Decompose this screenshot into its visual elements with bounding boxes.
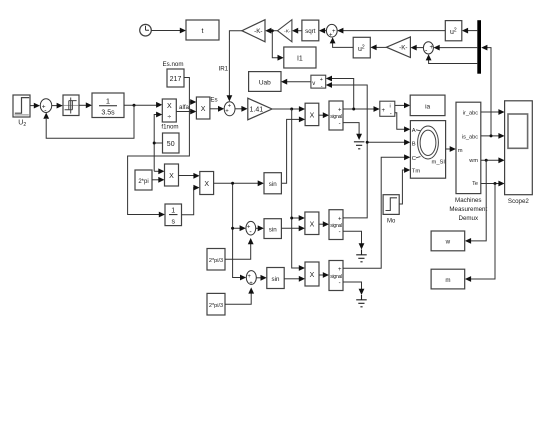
svg-text:Scope2: Scope2 bbox=[508, 198, 530, 205]
wire X3 to source3 bbox=[319, 272, 329, 278]
svg-text:1.41: 1.41 bbox=[250, 107, 264, 114]
svg-text:X: X bbox=[310, 221, 315, 228]
node f1nom junction bbox=[153, 142, 156, 145]
node Te junction bbox=[494, 182, 497, 185]
relay block bbox=[63, 95, 79, 116]
wire sumR to gain K3 bbox=[411, 45, 424, 51]
svg-text:v: v bbox=[312, 81, 315, 87]
display block Uab bbox=[249, 72, 281, 92]
sum junction R bbox=[423, 42, 433, 55]
wire sqrt to gain K2 bbox=[292, 28, 302, 34]
label Es.nom bbox=[163, 61, 184, 68]
wire 50 to divider and to product Xa bbox=[154, 112, 164, 175]
gain 1.41 bbox=[248, 98, 272, 120]
svg-text:50: 50 bbox=[167, 141, 175, 148]
display block I1 bbox=[284, 47, 316, 68]
svg-text:m: m bbox=[458, 148, 463, 154]
wire phase A tap to voltmeter plus bbox=[326, 76, 354, 109]
wire sin1 up to X1 lower input bbox=[281, 117, 305, 184]
svg-text:is_abc: is_abc bbox=[462, 134, 478, 140]
wire Te to scope bbox=[481, 181, 505, 187]
svg-text:t: t bbox=[202, 28, 204, 35]
constant 50 bbox=[163, 133, 180, 153]
sum junction top bbox=[326, 24, 337, 38]
wire u2b to sumTop bottom bbox=[330, 37, 354, 47]
svg-text:Es: Es bbox=[210, 97, 217, 104]
svg-text:-K-: -K- bbox=[284, 29, 291, 35]
product X2mid bbox=[305, 212, 319, 235]
integrator 1/s bbox=[165, 204, 182, 226]
svg-text:ia: ia bbox=[425, 103, 430, 110]
wire wm down to w block bbox=[465, 160, 486, 243]
wire Te down to m block bbox=[465, 184, 495, 282]
wire source2 minus to ground2 bbox=[343, 231, 364, 249]
step source U2 bbox=[13, 95, 30, 128]
ground 2 bbox=[356, 250, 367, 262]
svg-text:s: s bbox=[171, 218, 175, 225]
svg-text:3.5s: 3.5s bbox=[101, 110, 115, 117]
wire phase B tap to voltmeter minus bbox=[326, 82, 367, 142]
svg-text:Te: Te bbox=[472, 181, 478, 187]
wire source1 plus to ammeter bbox=[343, 106, 380, 112]
controlled voltage source 2 bbox=[329, 210, 343, 240]
svg-text:+: + bbox=[225, 109, 229, 115]
svg-text:alfa: alfa bbox=[179, 104, 190, 111]
wire transfer fcn output to divider bbox=[124, 102, 162, 108]
node phase junction 2 bbox=[231, 227, 234, 230]
node feedback junction bbox=[133, 104, 136, 107]
wire integrator to X2 lower bbox=[182, 185, 200, 215]
wire amplitude line down to X2mid and X3 bbox=[292, 109, 305, 271]
node is_abc junction bbox=[490, 134, 493, 137]
wire bar third output to sumR bottom bbox=[426, 54, 478, 63]
wire ammeter conductor to machine A bbox=[395, 113, 411, 133]
wire machine m output to demux bbox=[446, 146, 456, 152]
wire product X to sum Es bbox=[210, 106, 224, 112]
scope Scope2 bbox=[505, 101, 533, 205]
svg-text:-: - bbox=[339, 121, 341, 127]
label Machines Measurement Demux bbox=[449, 197, 487, 222]
wire sum3 to sin3 bbox=[256, 275, 266, 281]
wire wm to scope bbox=[481, 157, 505, 163]
wire relay to transfer fcn bbox=[79, 102, 92, 108]
svg-text:+: + bbox=[247, 274, 251, 280]
svg-text:÷: ÷ bbox=[167, 114, 171, 121]
clock block bbox=[140, 24, 152, 36]
svg-text:+: + bbox=[382, 108, 386, 114]
wire sum1 to relay bbox=[52, 103, 63, 109]
node B tap junction bbox=[366, 141, 369, 144]
wire u2a to sumTop bbox=[337, 28, 445, 34]
svg-text:+: + bbox=[249, 281, 253, 287]
svg-text:+: + bbox=[430, 45, 434, 51]
svg-text:+: + bbox=[338, 107, 342, 113]
sum junction Es bbox=[224, 102, 235, 116]
svg-text:Measurement: Measurement bbox=[449, 206, 487, 213]
svg-text:-: - bbox=[339, 230, 341, 236]
wire ammeter measurement to ia bbox=[395, 103, 410, 109]
svg-text:X: X bbox=[169, 173, 174, 180]
svg-text:X: X bbox=[310, 272, 315, 279]
svg-text:-K-: -K- bbox=[399, 45, 407, 52]
svg-text:Es.nom: Es.nom bbox=[163, 61, 184, 68]
node amplitude junction 1 bbox=[290, 108, 293, 111]
math sqrt bbox=[302, 20, 319, 41]
svg-text:+: + bbox=[320, 77, 323, 83]
svg-text:Tm: Tm bbox=[412, 169, 421, 175]
wire sum2 to sin2 bbox=[256, 225, 264, 231]
svg-text:-K-: -K- bbox=[254, 28, 262, 35]
wire feedback loop to sum1 bbox=[43, 105, 134, 138]
display block t bbox=[186, 20, 219, 40]
wire IR1 gain to sumEs bbox=[227, 31, 242, 102]
svg-text:signal: signal bbox=[330, 223, 342, 229]
wire X1 to source1 bbox=[319, 112, 329, 118]
svg-text:sin: sin bbox=[269, 226, 277, 233]
product X Es bbox=[196, 97, 210, 119]
label IR1 bbox=[218, 66, 228, 73]
divider block X / bbox=[162, 99, 176, 122]
wire Xa to X2 bbox=[179, 173, 200, 179]
wire source3 plus up to machine C bbox=[343, 154, 410, 268]
trig sin3 bbox=[267, 268, 284, 289]
current measurement ammeter bbox=[380, 101, 395, 117]
svg-text:IR1: IR1 bbox=[218, 66, 228, 73]
display block ia bbox=[410, 95, 445, 116]
wire U2 to sum1 bbox=[30, 103, 40, 109]
wire bar to u2a bbox=[462, 28, 477, 34]
svg-text:1: 1 bbox=[171, 208, 175, 215]
node wm junction bbox=[485, 159, 488, 162]
svg-text:+: + bbox=[338, 216, 342, 222]
wire source1 minus to ground1 bbox=[343, 123, 362, 140]
step source Mo bbox=[383, 195, 399, 225]
svg-text:1: 1 bbox=[106, 97, 110, 106]
svg-text:-: - bbox=[321, 84, 323, 90]
svg-text:Machines: Machines bbox=[455, 197, 481, 204]
svg-text:+: + bbox=[332, 29, 336, 35]
svg-text:217: 217 bbox=[170, 76, 182, 83]
svg-text:I1: I1 bbox=[297, 56, 303, 63]
constant 217 bbox=[167, 69, 184, 87]
svg-text:C: C bbox=[412, 156, 416, 162]
svg-text:X: X bbox=[204, 181, 209, 188]
product X1 bbox=[305, 103, 319, 125]
wire 217 to product X and to integrator bbox=[128, 78, 197, 218]
node phase junction 1 bbox=[231, 182, 234, 185]
machines measurement demux bbox=[456, 102, 481, 193]
svg-text:X: X bbox=[310, 112, 315, 119]
svg-text:2*pi: 2*pi bbox=[138, 179, 148, 185]
wire 2*pi to product Xa bbox=[152, 177, 165, 183]
node amplitude junction 2 bbox=[290, 217, 293, 220]
wire source2 plus up to machine B bbox=[343, 139, 410, 217]
constant 2*pi/3 b bbox=[207, 293, 225, 315]
svg-text:sqrt: sqrt bbox=[305, 28, 316, 35]
wire gainK3 to u2b bbox=[370, 45, 386, 51]
wire X2mid to source2 bbox=[319, 221, 329, 227]
product X2 bbox=[200, 172, 214, 195]
wire sumEs to gain 1.41 bbox=[235, 106, 248, 112]
wire bar to sumR bbox=[434, 45, 478, 51]
wire voltmeter to Uab bbox=[281, 79, 311, 85]
trig sin2 bbox=[264, 219, 281, 239]
controlled voltage source 3 bbox=[329, 261, 343, 291]
transfer fcn 1/3.5s bbox=[92, 93, 124, 118]
wire sumTop to sqrt bbox=[319, 28, 327, 34]
svg-text:Uab: Uab bbox=[259, 79, 271, 86]
svg-text:-: - bbox=[390, 111, 392, 117]
svg-text:X: X bbox=[201, 106, 206, 113]
svg-text:sin: sin bbox=[269, 181, 277, 188]
display block w bbox=[431, 231, 465, 251]
wire clock to t bbox=[151, 28, 186, 34]
label alfa bbox=[179, 104, 190, 111]
product Xa bbox=[165, 164, 179, 186]
ground 3 bbox=[356, 295, 367, 307]
phase angle line X2 output to sin1 and sums bbox=[214, 180, 264, 280]
display block m bbox=[431, 269, 465, 289]
asynchronous machine m_SI bbox=[410, 121, 445, 179]
sum junction 3 bbox=[246, 271, 256, 287]
product X3 bbox=[305, 262, 319, 286]
gain -K- b bbox=[386, 37, 410, 58]
gain -K- small bbox=[278, 20, 292, 42]
demux selector bar bbox=[477, 20, 481, 73]
svg-text:-: - bbox=[339, 280, 341, 286]
svg-text:2*pi/3: 2*pi/3 bbox=[209, 258, 223, 264]
svg-text:m: m bbox=[445, 277, 450, 284]
wire sin3 to X3 lower bbox=[284, 276, 305, 282]
constant 2*pi/3 a bbox=[207, 249, 225, 271]
wire Mo to machine Tm bbox=[399, 167, 410, 204]
constant 2*pi bbox=[135, 170, 152, 190]
math u^2 b bbox=[353, 37, 370, 58]
wire is_abc feedback into bar bbox=[481, 45, 491, 136]
wire 2*pi/3 a to sum2 bbox=[225, 238, 254, 259]
node phase A junction bbox=[352, 108, 355, 111]
svg-text:signal: signal bbox=[330, 114, 342, 120]
wire 2*pi/3 b to sum3 bbox=[225, 287, 254, 304]
svg-text:i: i bbox=[390, 104, 391, 110]
svg-text:2*pi/3: 2*pi/3 bbox=[209, 303, 223, 309]
wire gain 1.41 amplitude line to product X1 bbox=[272, 106, 305, 112]
svg-text:wm: wm bbox=[468, 158, 478, 164]
svg-text:f1nom: f1nom bbox=[161, 124, 178, 131]
wire is_abc to scope bbox=[481, 133, 505, 139]
wire gainK2 to gainK1 and branch to I1 bbox=[265, 28, 284, 61]
svg-text:signal: signal bbox=[330, 274, 342, 280]
svg-text:+: + bbox=[338, 267, 342, 273]
sum junction S1 bbox=[40, 99, 51, 115]
svg-text:ir_abc: ir_abc bbox=[463, 111, 478, 117]
svg-text:X: X bbox=[167, 103, 172, 110]
gain -K- big bbox=[242, 20, 265, 42]
wire divider to product X bbox=[176, 109, 196, 115]
math u^2 a bbox=[445, 21, 462, 41]
wire ir_abc to scope bbox=[481, 109, 505, 115]
wire source3 minus to ground3 bbox=[343, 282, 364, 295]
svg-text:B: B bbox=[412, 142, 416, 148]
svg-text:Demux: Demux bbox=[458, 215, 479, 222]
label Es bbox=[210, 97, 217, 104]
svg-text:A: A bbox=[412, 128, 416, 134]
node gain junction bbox=[271, 29, 274, 32]
trig sin1 bbox=[264, 173, 281, 194]
voltage measurement v bbox=[311, 75, 326, 90]
svg-text:Mo: Mo bbox=[387, 219, 396, 225]
controlled voltage source 1 bbox=[329, 101, 343, 130]
sum junction 2 bbox=[246, 221, 256, 236]
svg-text:sin: sin bbox=[272, 276, 280, 283]
svg-text:w: w bbox=[445, 239, 451, 246]
svg-text:m_SI: m_SI bbox=[432, 160, 446, 166]
ground 1 bbox=[354, 142, 365, 149]
label f1nom bbox=[161, 124, 178, 131]
wire sin2 to X2mid lower bbox=[281, 225, 305, 231]
